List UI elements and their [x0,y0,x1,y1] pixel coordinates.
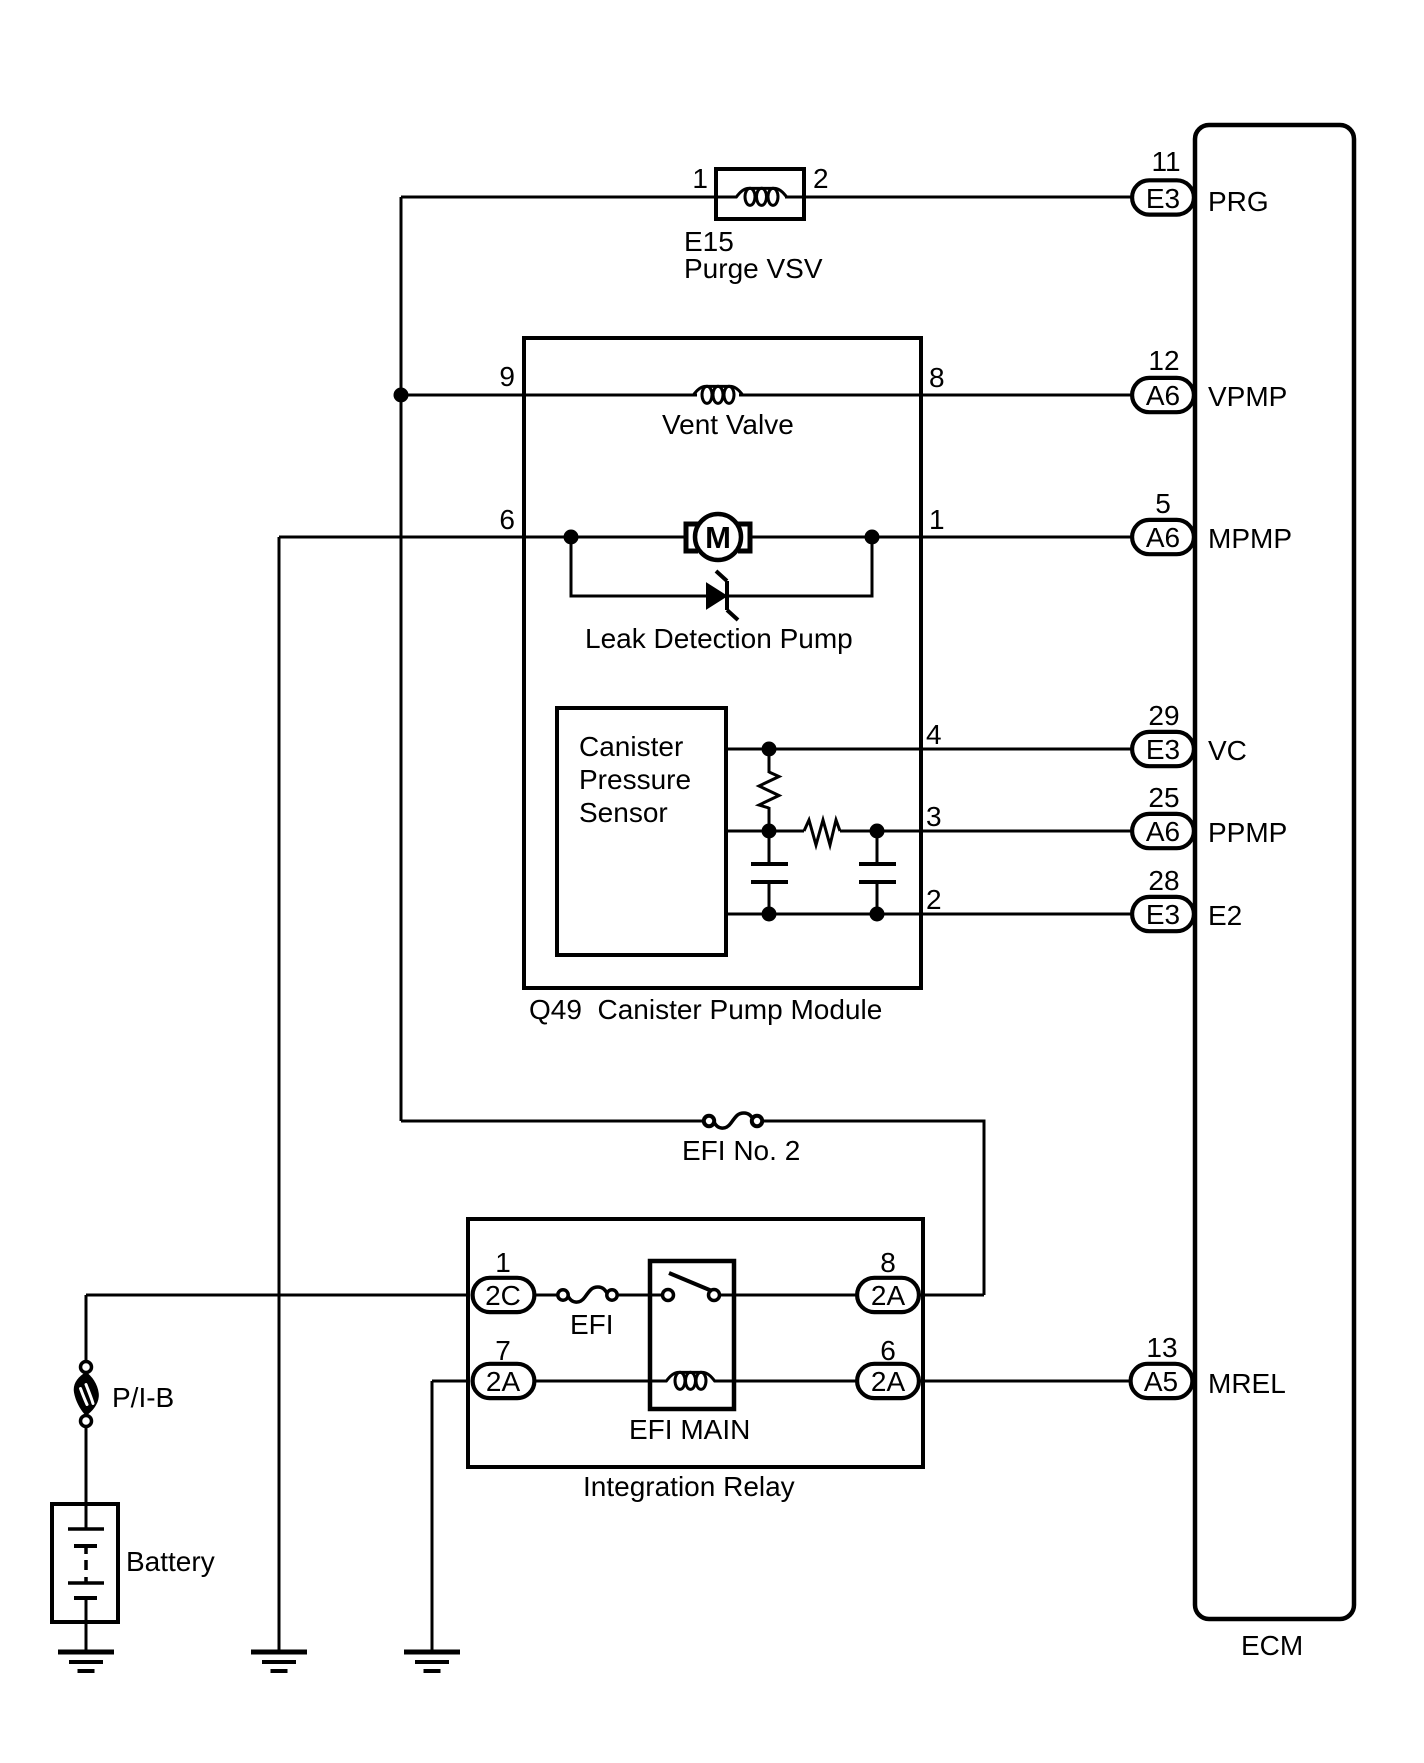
svg-text:29: 29 [1148,700,1179,731]
svg-text:VPMP: VPMP [1208,381,1287,412]
svg-text:EFI MAIN: EFI MAIN [629,1414,750,1445]
svg-text:Battery: Battery [126,1546,215,1577]
svg-text:2A: 2A [871,1366,906,1397]
svg-text:P/I-B: P/I-B [112,1382,174,1413]
svg-text:A6: A6 [1146,522,1180,553]
svg-text:Integration Relay: Integration Relay [583,1471,795,1502]
svg-text:VC: VC [1208,735,1247,766]
svg-text:Sensor: Sensor [579,797,668,828]
svg-text:1: 1 [692,163,708,194]
svg-text:E2: E2 [1208,900,1242,931]
svg-text:Pressure: Pressure [579,764,691,795]
svg-text:ECM: ECM [1241,1630,1303,1661]
svg-text:Canister: Canister [579,731,683,762]
svg-text:28: 28 [1148,865,1179,896]
svg-text:Leak Detection Pump: Leak Detection Pump [585,623,853,654]
svg-text:12: 12 [1148,345,1179,376]
svg-text:1: 1 [929,504,945,535]
svg-text:2A: 2A [871,1280,906,1311]
svg-text:Vent Valve: Vent Valve [662,409,794,440]
svg-text:A6: A6 [1146,380,1180,411]
svg-text:MREL: MREL [1208,1368,1286,1399]
svg-text:A5: A5 [1144,1366,1178,1397]
svg-text:13: 13 [1146,1332,1177,1363]
svg-text:11: 11 [1151,146,1180,177]
svg-text:4: 4 [926,719,942,750]
svg-text:6: 6 [880,1335,896,1366]
svg-text:M: M [705,520,731,555]
svg-text:PPMP: PPMP [1208,817,1287,848]
svg-text:Purge VSV: Purge VSV [684,253,823,284]
svg-text:8: 8 [929,362,945,393]
svg-text:5: 5 [1155,488,1171,519]
svg-text:A6: A6 [1146,816,1180,847]
svg-text:8: 8 [880,1247,896,1278]
svg-text:E3: E3 [1146,183,1180,214]
svg-text:PRG: PRG [1208,186,1269,217]
svg-text:E3: E3 [1146,899,1180,930]
svg-text:6: 6 [499,504,515,535]
svg-text:9: 9 [499,361,515,392]
svg-text:2C: 2C [485,1280,521,1311]
svg-text:EFI: EFI [570,1309,614,1340]
svg-text:2: 2 [813,163,829,194]
svg-text:25: 25 [1148,782,1179,813]
svg-text:3: 3 [926,801,942,832]
svg-text:Q49 Canister Pump Module: Q49 Canister Pump Module [529,994,882,1025]
svg-text:MPMP: MPMP [1208,523,1292,554]
svg-text:2: 2 [926,884,942,915]
svg-text:EFI No. 2: EFI No. 2 [682,1135,800,1166]
svg-text:7: 7 [495,1335,511,1366]
svg-text:E3: E3 [1146,734,1180,765]
svg-text:2A: 2A [486,1366,521,1397]
svg-text:1: 1 [495,1247,511,1278]
